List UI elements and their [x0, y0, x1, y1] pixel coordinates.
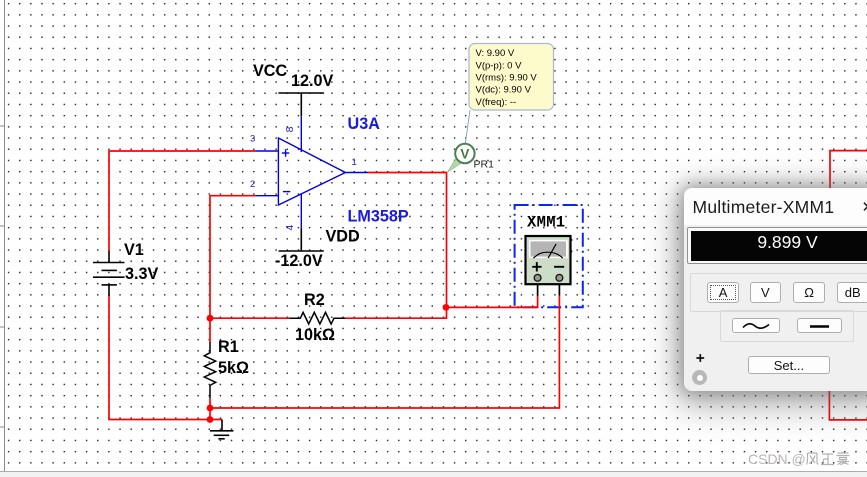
- svg-text:12.0V: 12.0V: [291, 72, 334, 90]
- svg-text:5kΩ: 5kΩ: [218, 359, 249, 377]
- resistor R2: [290, 312, 346, 324]
- battery V1: [93, 251, 125, 296]
- wire output pin1 to junction: [368, 173, 447, 308]
- wire XMM1 plus terminal lead: [537, 284, 539, 296]
- junction node R1 bottom: [207, 405, 214, 412]
- minus marker: [283, 191, 290, 193]
- svg-text:V: V: [460, 147, 469, 162]
- svg-text:PR1: PR1: [474, 159, 495, 171]
- svg-text:R2: R2: [304, 291, 325, 309]
- svg-text:10kΩ: 10kΩ: [295, 326, 335, 344]
- meter plus terminal marker: [532, 262, 564, 271]
- svg-text:VDD: VDD: [326, 228, 360, 246]
- svg-text:V(rms): 9.90 V: V(rms): 9.90 V: [476, 73, 538, 84]
- svg-text:-12.0V: -12.0V: [275, 252, 323, 270]
- svg-text:3: 3: [250, 134, 255, 145]
- svg-text:V(freq): --: V(freq): --: [476, 97, 517, 108]
- svg-text:R1: R1: [218, 338, 239, 356]
- ground: [210, 420, 234, 439]
- wire V1- down and right to ground junction: [109, 296, 222, 420]
- svg-text:1: 1: [352, 157, 357, 168]
- VCC power: [279, 93, 325, 116]
- resistor R1: [204, 342, 215, 398]
- wire junction to XMM plus: [447, 296, 538, 307]
- probe PR1 callout line: [465, 110, 470, 144]
- watermark: [748, 451, 852, 467]
- plus marker: [282, 152, 289, 154]
- svg-text:VCC: VCC: [253, 62, 287, 80]
- VDD power: [279, 228, 324, 251]
- probe PR1 arrow: [447, 158, 461, 172]
- wire R2 right with jog up to junction: [345, 307, 446, 318]
- probe PR1 circle: [455, 144, 474, 163]
- wire V1+ to pin3: [109, 151, 255, 251]
- svg-text:V(p-p): 0 V: V(p-p): 0 V: [476, 60, 523, 71]
- svg-text:V(dc): 9.90 V: V(dc): 9.90 V: [476, 85, 532, 96]
- wire bottom right partial: [829, 390, 867, 420]
- wire top right partial: [830, 151, 867, 190]
- svg-text:U3A: U3A: [348, 115, 381, 133]
- instrument dialog Multimeter-XMM1: [684, 188, 867, 391]
- svg-text:3.3V: 3.3V: [125, 265, 159, 283]
- op-amp U3A: [255, 116, 368, 228]
- svg-text:LM358P: LM358P: [348, 208, 409, 226]
- wire bottom node long horizontal: [210, 296, 559, 408]
- junction node feedback R1/R2/pin2: [207, 315, 214, 322]
- svg-text:XMM1: XMM1: [527, 214, 565, 232]
- wire R2 left: [210, 317, 290, 319]
- junction node output/R2/XMM1: [443, 304, 450, 311]
- svg-text:2: 2: [250, 179, 255, 190]
- svg-text:8: 8: [284, 126, 296, 132]
- wire XMM1 minus terminal lead: [558, 284, 560, 296]
- wires red: [109, 151, 867, 420]
- wire R1 top lead red: [209, 318, 211, 342]
- svg-text:4: 4: [284, 225, 296, 231]
- sheet left border: [0, 0, 5, 471]
- svg-text:V: 9.90 V: V: 9.90 V: [476, 48, 515, 59]
- XMM1 selection box: [515, 205, 583, 307]
- meter terminal posts: [534, 274, 541, 281]
- multimeter XMM1 icon body: [526, 236, 571, 284]
- wire R1 bottom red: [209, 398, 211, 420]
- junction node ground/V1-: [207, 416, 214, 423]
- svg-text:V1: V1: [124, 241, 144, 259]
- wire feedback pin2: [210, 196, 255, 319]
- probe readout box: [469, 44, 554, 111]
